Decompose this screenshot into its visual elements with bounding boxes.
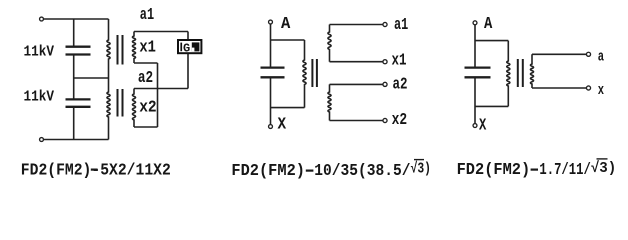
svg-text:x2: x2 bbox=[392, 110, 408, 129]
svg-text:a2: a2 bbox=[393, 75, 408, 94]
svg-text:X: X bbox=[479, 115, 486, 134]
svg-text:a1: a1 bbox=[140, 5, 154, 24]
svg-text:1.7/11/: 1.7/11/ bbox=[539, 161, 590, 180]
svg-text:x2: x2 bbox=[139, 98, 157, 117]
svg-text:10/35(38.5/: 10/35(38.5/ bbox=[314, 162, 410, 181]
svg-text:11kV: 11kV bbox=[24, 45, 55, 61]
svg-text:FD2(FM2)-: FD2(FM2)- bbox=[231, 162, 314, 181]
svg-text:G: G bbox=[183, 42, 190, 56]
svg-text:a2: a2 bbox=[138, 68, 153, 87]
svg-text:FD2(FM2)-5X2/11X2: FD2(FM2)-5X2/11X2 bbox=[21, 161, 171, 180]
svg-text:x1: x1 bbox=[139, 38, 156, 57]
svg-text:√3): √3) bbox=[591, 160, 617, 177]
svg-text:a1: a1 bbox=[394, 15, 408, 34]
svg-text:√3): √3) bbox=[411, 160, 432, 177]
svg-text:X: X bbox=[278, 115, 287, 134]
svg-text:A: A bbox=[484, 14, 492, 33]
svg-text:a: a bbox=[598, 48, 604, 66]
svg-text:FD2(FM2)-: FD2(FM2)- bbox=[457, 161, 540, 180]
svg-text:x: x bbox=[598, 81, 604, 99]
svg-text:A: A bbox=[281, 14, 290, 33]
svg-text:x1: x1 bbox=[392, 51, 407, 70]
svg-text:11kV: 11kV bbox=[24, 90, 55, 106]
